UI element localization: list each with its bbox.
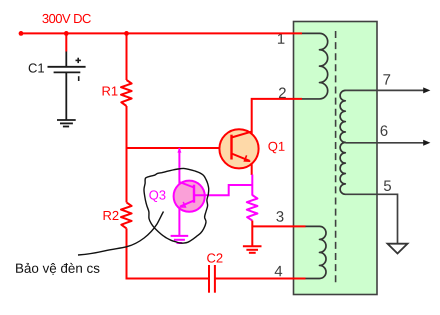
- transistor Q3: [174, 181, 205, 212]
- ground (red) below emitter resistor: [243, 246, 262, 253]
- pin label 5: [384, 180, 391, 190]
- pin label 6: [381, 125, 388, 136]
- C1 minus tick: [78, 76, 80, 81]
- pin label 1: [278, 33, 284, 43]
- transformer primary winding pins 1-2: [302, 33, 328, 99]
- wire emitter resistor to ground (red): [251, 221, 253, 247]
- node arrow junction (magenta): [177, 148, 181, 153]
- wire Q1 emitter (red part): [251, 163, 253, 175]
- wire R1 top: [126, 33, 128, 80]
- wire pin 5 to ground arrow: [345, 194, 397, 243]
- wire pin 7 output: [345, 87, 430, 93]
- annotation pointer curve: [78, 212, 164, 256]
- resistor R2: [121, 202, 132, 228]
- wire R2 bottom: [126, 228, 128, 279]
- label C2: [207, 253, 222, 262]
- transformer secondary winding pins 7-6-5: [340, 90, 345, 194]
- label Q3: [149, 190, 165, 202]
- label R1: [103, 87, 118, 96]
- label Q1: [268, 142, 284, 154]
- wire to pin 3: [252, 225, 305, 227]
- capacitor C1 top lead black: [65, 52, 67, 67]
- pin label 2: [279, 88, 286, 98]
- wire R2 top: [126, 148, 128, 202]
- annotation text: [16, 263, 99, 275]
- wire pin 6 output: [345, 140, 430, 146]
- ground under Q3 (magenta): [171, 236, 189, 243]
- wire Q1 emitter magenta segment: [251, 175, 253, 196]
- resistor emitter (magenta): [247, 195, 258, 221]
- C1 plus sign: [76, 58, 81, 63]
- pin label 7: [383, 74, 390, 84]
- pin label 3: [276, 211, 283, 222]
- node dot at R1: [124, 31, 129, 36]
- capacitor C1 lead red: [65, 33, 67, 51]
- wire R1 bottom to mid rail: [126, 106, 128, 149]
- capacitor C1 plates: [48, 67, 86, 73]
- wire bottom right (C2 to pin 4): [215, 278, 306, 280]
- transformer core (dashed): [335, 31, 337, 284]
- ground arrow (pin 5): [388, 244, 408, 254]
- ground under C1: [57, 120, 76, 127]
- transformer T1 body: [294, 22, 378, 295]
- resistor R1: [121, 80, 132, 106]
- label R2: [104, 211, 119, 220]
- wire mid (base of Q1): [127, 147, 232, 149]
- C1 bottom lead: [65, 72, 67, 119]
- wire Q3 base network (magenta): [194, 185, 252, 195]
- wire top rail 300V: [21, 32, 302, 34]
- pin label 4: [275, 266, 283, 276]
- transistor Q1: [219, 129, 258, 168]
- wire bottom left (to C2): [126, 278, 210, 280]
- transformer winding pins 3-4: [306, 226, 327, 278]
- wire Q1 collector to pin 2: [252, 99, 302, 134]
- label 300V DC: [42, 14, 90, 23]
- node dot at C1: [64, 31, 69, 36]
- annotation blob around Q3: [144, 168, 209, 243]
- node dot rail left end: [19, 31, 24, 36]
- capacitor C2: [209, 265, 215, 293]
- wire magenta vertical to ground: [178, 148, 180, 236]
- label C1: [29, 63, 44, 72]
